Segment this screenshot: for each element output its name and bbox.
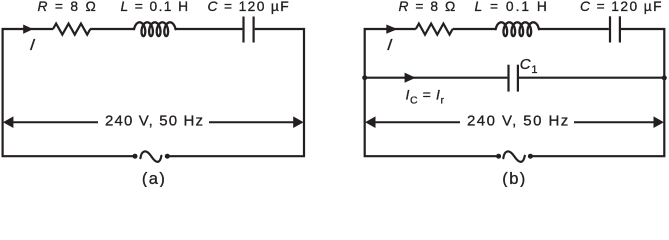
wire: (b) bottom-left segment, left side, top-left segment — [365, 29, 499, 156]
svg-text:C1: C1 — [520, 56, 538, 76]
junction node dot (b) left — [362, 75, 367, 80]
svg-text:C = 120 µF: C = 120 µF — [580, 0, 663, 14]
svg-text:IC = Ir: IC = Ir — [406, 87, 445, 107]
current arrow I (a) — [23, 25, 33, 34]
branch current arrow IC (b) — [405, 73, 416, 83]
wire: (a) top-right corner, right side, bottom-right segment — [167, 29, 304, 156]
svg-text:(a): (a) — [142, 170, 166, 187]
ac source node dot (b) right — [528, 154, 533, 159]
wire: (b) middle branch right of C1 — [519, 77, 664, 79]
svg-text:(b): (b) — [502, 170, 526, 187]
wire: (a) top segment between resistor and inductor — [90, 28, 134, 30]
ac source sine wave (b) — [503, 151, 525, 161]
svg-text:I: I — [386, 36, 393, 54]
capacitor C1 (b) plates — [509, 65, 518, 92]
resistor R (b) — [416, 24, 453, 35]
voltage arrow line (a) left — [11, 121, 98, 123]
svg-text:I: I — [29, 36, 36, 54]
svg-text:L = 0.1 H: L = 0.1 H — [121, 0, 190, 14]
svg-text:240 V, 50 Hz: 240 V, 50 Hz — [467, 112, 570, 129]
inductor L (a) — [134, 22, 175, 36]
current arrow I (b) — [386, 25, 397, 34]
wire: (b) top segment between inductor and capacitor — [539, 28, 609, 30]
voltage arrowhead (b) left — [365, 116, 375, 128]
svg-text:R = 8 Ω: R = 8 Ω — [399, 0, 457, 14]
voltage arrow line (b) left — [372, 121, 460, 123]
svg-text:R = 8 Ω: R = 8 Ω — [38, 0, 98, 14]
ac source node dot (a) left — [133, 154, 138, 159]
resistor R (a) — [53, 24, 90, 35]
voltage arrow line (b) right — [574, 121, 656, 123]
voltage arrowhead (b) right — [654, 116, 664, 128]
ac source sine wave (a) — [140, 151, 161, 161]
svg-text:C = 120 µF: C = 120 µF — [208, 0, 291, 14]
capacitor C (a) plates — [244, 17, 254, 43]
inductor L (b) — [496, 22, 539, 36]
wire: (a) top segment between inductor and capacitor — [176, 28, 242, 30]
ac source node dot (b) left — [496, 154, 501, 159]
svg-text:240 V, 50 Hz: 240 V, 50 Hz — [105, 112, 204, 129]
capacitor C (b) plates — [610, 16, 620, 42]
svg-text:L = 0.1 H: L = 0.1 H — [475, 0, 549, 14]
voltage arrow line (a) right — [209, 121, 295, 123]
wire: (b) top segment between resistor and inductor — [453, 28, 496, 30]
wire: (b) top-right corner, right side, bottom-right segment — [530, 29, 664, 156]
wire: (a) bottom-left segment, left side, top-left segment — [3, 29, 135, 156]
ac source node dot (a) right — [165, 154, 170, 159]
voltage arrowhead (a) right — [293, 116, 303, 128]
voltage arrowhead (a) left — [3, 116, 13, 128]
junction node dot (b) right — [662, 75, 667, 80]
wire: (b) middle branch left of C1 — [365, 77, 508, 79]
